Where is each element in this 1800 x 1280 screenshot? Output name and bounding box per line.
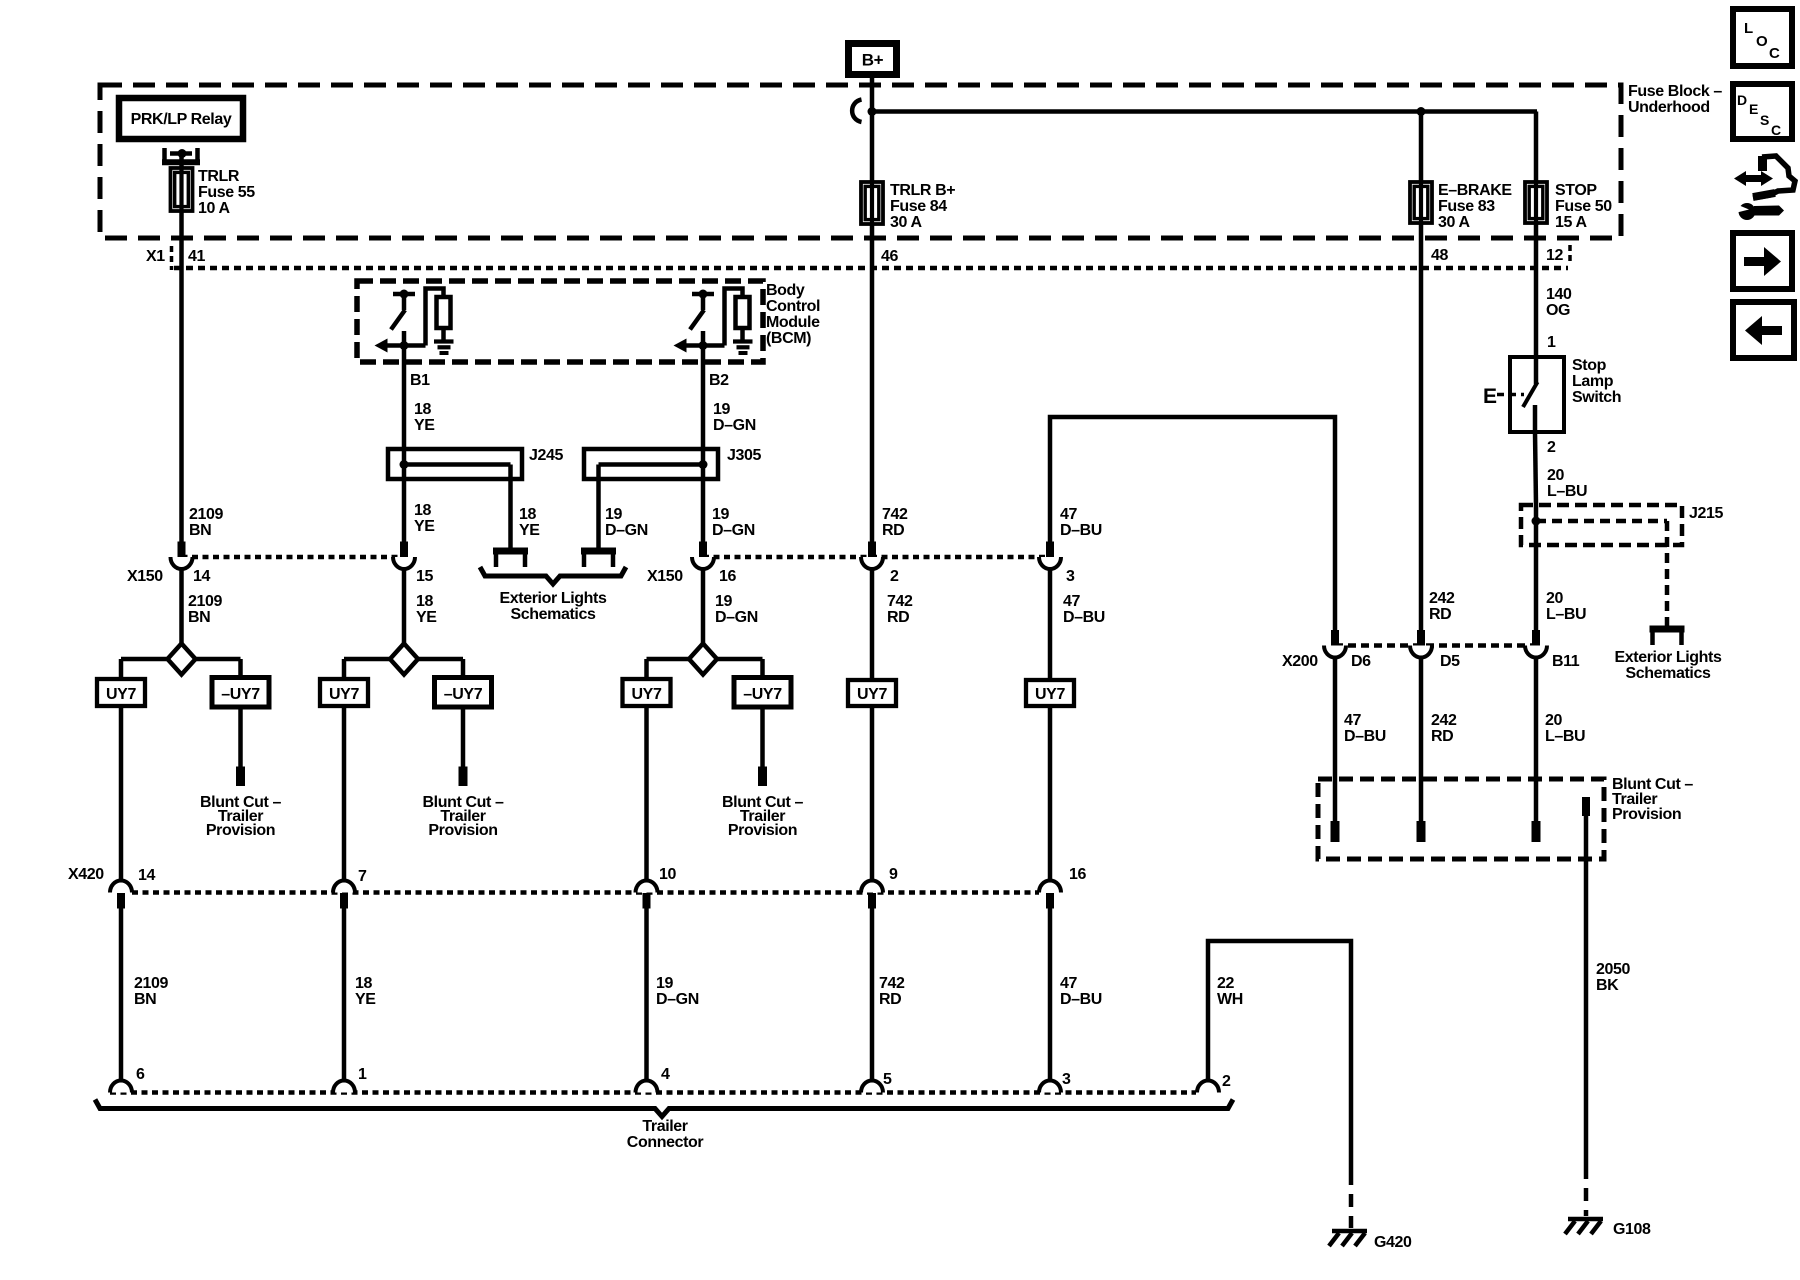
svg-text:19: 19: [715, 593, 732, 610]
svg-text:D–GN: D–GN: [656, 991, 699, 1008]
svg-text:TRLR: TRLR: [198, 168, 240, 185]
junction feed/Fuse 83: [1417, 107, 1426, 116]
connector row X150 dotted left: [182, 555, 405, 560]
svg-text:Stop: Stop: [1572, 357, 1607, 374]
connector row X200 dotted line: [1335, 643, 1536, 648]
fuse E-BRAKE Fuse 83: [1410, 182, 1432, 223]
relay contact symbol: [162, 148, 167, 162]
wire 2109 BN to splice: [179, 568, 184, 644]
svg-text:B1: B1: [410, 372, 430, 389]
blunt cut end 2: [459, 767, 468, 787]
svg-text:X150: X150: [127, 568, 163, 585]
svg-text:14: 14: [138, 867, 155, 884]
svg-text:Connector: Connector: [627, 1134, 704, 1151]
svg-text:YE: YE: [416, 609, 437, 626]
BCM driver output B2: [692, 292, 714, 297]
svg-text:D6: D6: [1351, 653, 1371, 670]
svg-text:9: 9: [889, 866, 898, 883]
option box UY7 4: [848, 680, 896, 706]
wire 242 RD to blunt cut: [1419, 657, 1424, 821]
svg-text:YE: YE: [414, 417, 435, 434]
svg-text:7: 7: [358, 868, 367, 885]
svg-text:UY7: UY7: [329, 686, 359, 703]
blunt cut - trailer provision box: [1318, 779, 1604, 859]
wire to trailer connector: [870, 908, 875, 1082]
svg-text:X1: X1: [146, 248, 165, 265]
svg-text:5: 5: [883, 1071, 892, 1088]
dashed branch J215: [1536, 519, 1667, 524]
svg-text:242: 242: [1429, 590, 1455, 607]
svg-text:RD: RD: [887, 609, 909, 626]
wire drop to Fuse 50: [1534, 112, 1539, 183]
svg-text:E–BRAKE: E–BRAKE: [1438, 182, 1512, 199]
wire 18 YE to splice: [402, 568, 407, 644]
connector X150 pin 16: [699, 542, 707, 558]
svg-text:Fuse 83: Fuse 83: [1438, 198, 1495, 215]
splice diamond 2: [344, 657, 390, 662]
wire dashed to G420: [1349, 1172, 1354, 1228]
wire blunt cut 2: [461, 707, 466, 767]
connector trailer pin 3: [1039, 1081, 1061, 1093]
wire blunt cut 3: [760, 707, 765, 767]
wire out of switch: [1533, 405, 1538, 432]
svg-text:L–BU: L–BU: [1546, 606, 1586, 623]
svg-text:2: 2: [1547, 439, 1556, 456]
svg-text:2109: 2109: [134, 975, 168, 992]
svg-text:J215: J215: [1689, 505, 1723, 522]
svg-text:C: C: [1771, 122, 1781, 138]
wire dashed to G108: [1584, 1166, 1589, 1216]
svg-text:Lamp: Lamp: [1572, 373, 1614, 390]
splice J245: [388, 449, 522, 479]
wire to trailer connector: [119, 908, 124, 1082]
PRK/LP Relay label box: [119, 98, 243, 139]
ground G420: [1332, 1229, 1367, 1234]
svg-text:19: 19: [713, 401, 730, 418]
wire 47 D-BU to UY7: [1048, 568, 1053, 680]
svg-text:30 A: 30 A: [1438, 214, 1470, 231]
option box UY7 3: [623, 679, 671, 706]
ground G108: [1568, 1217, 1603, 1222]
svg-text:BN: BN: [134, 991, 156, 1008]
wire to UY7 1: [119, 659, 124, 679]
connector X420 pin 16: [1039, 881, 1061, 893]
svg-text:Provision: Provision: [728, 822, 797, 839]
wire to UY7 3: [644, 659, 649, 679]
icon DESC box: [1733, 84, 1792, 139]
svg-text:41: 41: [188, 248, 205, 265]
svg-text:WH: WH: [1217, 991, 1243, 1008]
svg-text:1: 1: [358, 1066, 367, 1083]
svg-text:D–BU: D–BU: [1060, 522, 1102, 539]
svg-text:RD: RD: [879, 991, 901, 1008]
svg-text:OG: OG: [1546, 302, 1570, 319]
svg-text:242: 242: [1431, 712, 1457, 729]
connector trailer pin 5: [861, 1081, 883, 1093]
splice J305: [584, 449, 718, 479]
fuse block - underhood box: [100, 85, 1621, 238]
wrench: [1739, 203, 1756, 220]
wire to -UY7 1: [238, 659, 243, 678]
connector row X420 dotted line: [132, 890, 1039, 895]
svg-text:UY7: UY7: [857, 686, 887, 703]
svg-text:STOP: STOP: [1555, 182, 1597, 199]
junction B+ feed: [868, 107, 877, 116]
connector X150 pin 14: [178, 542, 186, 558]
connector X150 pin 2: [868, 542, 876, 558]
brace trailer connector: [95, 1100, 1233, 1117]
svg-text:Underhood: Underhood: [1628, 99, 1710, 116]
svg-text:D: D: [1737, 92, 1747, 108]
svg-text:16: 16: [719, 568, 736, 585]
wire to X420: [1048, 706, 1053, 882]
svg-text:UY7: UY7: [106, 686, 136, 703]
svg-text:YE: YE: [355, 991, 376, 1008]
svg-text:D–BU: D–BU: [1344, 728, 1386, 745]
wire into switch: [1534, 357, 1539, 384]
option box UY7 2: [320, 679, 368, 706]
svg-text:TRLR B+: TRLR B+: [890, 182, 955, 199]
svg-text:D–BU: D–BU: [1060, 991, 1102, 1008]
connector trailer pin 6: [110, 1081, 132, 1093]
wire start 2050 BK: [1582, 797, 1590, 816]
svg-text:1: 1: [1547, 334, 1556, 351]
svg-text:47: 47: [1063, 593, 1080, 610]
svg-text:Switch: Switch: [1572, 389, 1621, 406]
connector X420 pin 7: [333, 881, 355, 893]
wire to UY7 2: [342, 659, 347, 679]
blunt cut end 1: [236, 767, 245, 787]
wire drop to Fuse 83: [1419, 112, 1424, 183]
stub 18 YE to exterior lights: [493, 548, 528, 555]
svg-text:YE: YE: [414, 518, 435, 535]
svg-text:UY7: UY7: [632, 686, 662, 703]
svg-text:Fuse Block –: Fuse Block –: [1628, 83, 1722, 100]
X1 left end tick: [170, 246, 174, 270]
svg-text:BK: BK: [1596, 977, 1619, 994]
wire 47 D-BU top run: [1050, 417, 1335, 630]
svg-text:Exterior Lights: Exterior Lights: [1615, 649, 1722, 666]
svg-text:BN: BN: [189, 522, 211, 539]
svg-text:Fuse 55: Fuse 55: [198, 184, 255, 201]
svg-text:15: 15: [416, 568, 433, 585]
svg-text:742: 742: [879, 975, 905, 992]
Body Control Module box: [357, 281, 763, 362]
svg-text:BN: BN: [188, 609, 210, 626]
blunt cut end 3: [758, 767, 767, 787]
svg-text:D–GN: D–GN: [712, 522, 755, 539]
svg-text:3: 3: [1066, 568, 1075, 585]
option box -UY7 1: [212, 678, 269, 708]
wire to -UY7 2: [461, 659, 466, 678]
svg-text:4: 4: [661, 1066, 670, 1083]
connector row X1 dotted line: [174, 266, 1568, 271]
wire to X420: [644, 706, 649, 882]
wire B+ feed rail: [872, 109, 1537, 114]
svg-text:C: C: [1769, 45, 1780, 62]
svg-text:2: 2: [1222, 1073, 1231, 1090]
svg-text:16: 16: [1069, 866, 1086, 883]
switch blade: [1523, 382, 1538, 407]
svg-text:2109: 2109: [189, 506, 223, 523]
dashed branch down: [1665, 521, 1670, 627]
connector row trailer dotted line: [110, 1090, 1196, 1095]
wire 20 L-BU through J215: [1534, 505, 1539, 630]
svg-text:742: 742: [887, 593, 913, 610]
svg-text:B2: B2: [709, 372, 729, 389]
option box UY7 5: [1026, 680, 1074, 706]
svg-text:48: 48: [1431, 247, 1448, 264]
svg-text:X150: X150: [647, 568, 683, 585]
wire 19 D-GN branch to stub: [596, 465, 601, 552]
svg-text:140: 140: [1546, 286, 1572, 303]
svg-text:J305: J305: [727, 447, 761, 464]
svg-text:L: L: [1744, 20, 1753, 37]
wire 47 D-BU to blunt cut: [1333, 657, 1338, 821]
svg-text:Schematics: Schematics: [511, 606, 596, 623]
wire 19 D-GN B2 to X150: [701, 331, 706, 556]
svg-text:–UY7: –UY7: [743, 686, 782, 703]
connector X420 pin 10: [636, 881, 658, 893]
wire 19 D-GN to splice: [701, 568, 706, 644]
splice diamond 3: [647, 657, 690, 662]
svg-text:12: 12: [1546, 247, 1563, 264]
wire to X420: [870, 706, 875, 882]
wire 2109 BN X1 to X150: [179, 211, 184, 556]
connector X420 pin 14: [110, 881, 132, 893]
feed tap hook: [852, 100, 861, 123]
connector X200 pin D5: [1417, 630, 1425, 646]
svg-text:19: 19: [712, 506, 729, 523]
svg-text:Trailer: Trailer: [642, 1118, 687, 1135]
wire blunt cut 1: [238, 707, 243, 767]
svg-text:Exterior Lights: Exterior Lights: [500, 590, 607, 607]
connector X150 pin 15: [400, 542, 408, 558]
option box UY7 1: [97, 679, 145, 706]
wire to trailer connector: [342, 908, 347, 1082]
svg-text:L–BU: L–BU: [1547, 483, 1587, 500]
svg-text:D5: D5: [1440, 653, 1460, 670]
svg-text:Module: Module: [766, 314, 820, 331]
svg-text:E: E: [1483, 385, 1497, 408]
svg-text:18: 18: [355, 975, 372, 992]
connector X200 pin D6: [1331, 630, 1339, 646]
svg-text:YE: YE: [519, 522, 540, 539]
wire to X420: [342, 706, 347, 882]
svg-text:RD: RD: [1429, 606, 1451, 623]
svg-text:18: 18: [416, 593, 433, 610]
wire 242 RD Fuse 83 to X200: [1419, 224, 1424, 630]
svg-text:14: 14: [193, 568, 210, 585]
mechanical link dashes: [1497, 393, 1524, 397]
svg-text:2: 2: [890, 568, 899, 585]
svg-text:Provision: Provision: [206, 822, 275, 839]
svg-text:10 A: 10 A: [198, 200, 230, 217]
blunt cut end 20 L-BU: [1532, 821, 1541, 842]
BCM driver output B1: [393, 292, 415, 297]
icon forward arrow box: [1733, 233, 1792, 289]
svg-text:6: 6: [136, 1066, 145, 1083]
stub 20 L-BU to exterior lights: [1650, 626, 1685, 633]
svg-text:Provision: Provision: [428, 822, 497, 839]
svg-text:10: 10: [659, 866, 676, 883]
svg-text:Control: Control: [766, 298, 820, 315]
svg-text:X200: X200: [1282, 653, 1318, 670]
wire to -UY7 3: [760, 659, 765, 678]
svg-text:18: 18: [414, 401, 431, 418]
svg-text:–UY7: –UY7: [221, 686, 260, 703]
splice diamond 1: [121, 657, 168, 662]
svg-text:D–GN: D–GN: [605, 522, 648, 539]
svg-text:PRK/LP Relay: PRK/LP Relay: [131, 111, 232, 128]
option box -UY7 2: [435, 678, 492, 708]
icon back arrow box: [1733, 302, 1794, 358]
svg-text:19: 19: [656, 975, 673, 992]
connector X420 pin 9: [861, 881, 883, 893]
svg-text:Provision: Provision: [1612, 806, 1681, 823]
X1 right end tick: [1568, 245, 1572, 265]
fuse STOP Fuse 50: [1525, 182, 1547, 223]
svg-text:20: 20: [1547, 467, 1564, 484]
fuse TRLR B+ Fuse 84: [861, 182, 883, 224]
wire to trailer connector: [1048, 908, 1053, 1082]
svg-text:G108: G108: [1613, 1221, 1651, 1238]
svg-text:S: S: [1760, 112, 1769, 128]
svg-text:47: 47: [1060, 975, 1077, 992]
svg-text:46: 46: [881, 248, 898, 265]
svg-text:G420: G420: [1374, 1234, 1412, 1251]
svg-text:–UY7: –UY7: [444, 686, 483, 703]
wire 2050 BK: [1584, 816, 1589, 1166]
svg-text:30 A: 30 A: [890, 214, 922, 231]
svg-text:18: 18: [414, 502, 431, 519]
connector X200 pin B11: [1532, 630, 1540, 646]
svg-text:L–BU: L–BU: [1545, 728, 1585, 745]
connector X150 pin 3: [1046, 542, 1054, 558]
svg-text:15 A: 15 A: [1555, 214, 1587, 231]
wire 18 YE branch to stub: [508, 465, 513, 552]
svg-text:47: 47: [1344, 712, 1361, 729]
svg-text:O: O: [1756, 33, 1768, 50]
svg-text:D–BU: D–BU: [1063, 609, 1105, 626]
splice J215 box: [1521, 505, 1682, 545]
svg-text:RD: RD: [1431, 728, 1453, 745]
connector trailer pin 2: [1197, 1081, 1219, 1093]
svg-text:(BCM): (BCM): [766, 330, 811, 347]
wire 20 L-BU to blunt cut: [1534, 657, 1539, 821]
svg-text:742: 742: [882, 506, 908, 523]
svg-text:20: 20: [1545, 712, 1562, 729]
icon LOC box: [1733, 9, 1792, 66]
option box -UY7 3: [734, 678, 791, 708]
svg-text:E: E: [1749, 101, 1758, 117]
stub 19 D-GN to exterior lights: [581, 548, 616, 555]
wire B+ down to Fuse 84: [870, 76, 875, 182]
blunt cut end 242 RD: [1417, 821, 1426, 842]
wire 22 WH to G420: [1208, 941, 1351, 1172]
fuse TRLR Fuse 55: [171, 168, 193, 211]
svg-text:2050: 2050: [1596, 961, 1630, 978]
svg-text:UY7: UY7: [1035, 686, 1065, 703]
svg-text:D–GN: D–GN: [713, 417, 756, 434]
connector row X150 dotted right: [703, 555, 1050, 560]
brace exterior lights: [480, 567, 626, 584]
svg-text:Body: Body: [766, 282, 805, 299]
svg-text:22: 22: [1217, 975, 1234, 992]
wire 18 YE B1 to X150: [402, 331, 407, 556]
svg-text:2109: 2109: [188, 593, 222, 610]
svg-text:Schematics: Schematics: [1626, 665, 1711, 682]
B+ power feed box: [845, 40, 900, 78]
wire 140 OG Fuse 50 to switch: [1534, 224, 1539, 357]
icon arrows-wrench: [1734, 171, 1746, 186]
svg-text:D–GN: D–GN: [715, 609, 758, 626]
svg-text:18: 18: [519, 506, 536, 523]
wire relay to Fuse 55: [179, 154, 184, 171]
svg-text:20: 20: [1546, 590, 1563, 607]
wire 742 RD X1 to X150: [870, 224, 875, 556]
junction J215: [1532, 517, 1541, 526]
svg-text:B+: B+: [862, 51, 884, 70]
wire 20 L-BU to J215: [1535, 432, 1536, 505]
svg-text:47: 47: [1060, 506, 1077, 523]
stop lamp switch box: [1510, 357, 1564, 432]
svg-text:RD: RD: [882, 522, 904, 539]
wire to trailer connector: [644, 908, 649, 1082]
svg-text:B11: B11: [1552, 653, 1580, 670]
wire 742 RD to UY7: [870, 568, 875, 680]
svg-text:3: 3: [1062, 1071, 1071, 1088]
svg-text:Fuse 50: Fuse 50: [1555, 198, 1612, 215]
svg-text:J245: J245: [529, 447, 563, 464]
svg-text:Fuse 84: Fuse 84: [890, 198, 947, 215]
svg-text:X420: X420: [68, 866, 104, 883]
blunt cut end 47 D-BU: [1331, 821, 1340, 842]
connector trailer pin 4: [636, 1081, 658, 1093]
connector trailer pin 1: [333, 1081, 355, 1093]
svg-text:19: 19: [605, 506, 622, 523]
wire to X420: [119, 706, 124, 882]
